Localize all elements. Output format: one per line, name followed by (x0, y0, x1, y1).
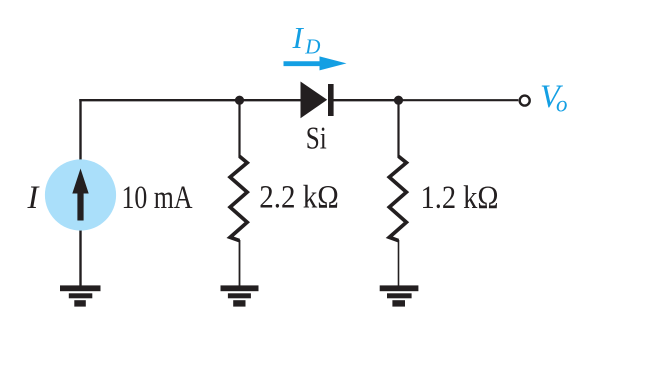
svg-text:1.2 kΩ: 1.2 kΩ (421, 180, 499, 216)
svg-text:o: o (556, 92, 568, 117)
ground: resistor R2 (380, 285, 419, 306)
diode D1 anode triangle (301, 82, 328, 119)
wire: node A down to resistor R1 (238, 100, 240, 157)
current source I body (45, 159, 116, 230)
wire: resistor R2 bottom to ground (398, 240, 400, 286)
svg-text:I: I (292, 20, 305, 55)
diode D1 cathode bar (328, 84, 334, 116)
node A junction dot (235, 96, 244, 105)
resistor R1 2.2k zigzag (230, 156, 247, 240)
current source arrow (72, 169, 88, 221)
wire: top rail from left corner to node A (79, 99, 239, 101)
svg-text:2.2 kΩ: 2.2 kΩ (259, 180, 339, 216)
wire: left vertical from top rail to current source (79, 99, 81, 160)
ground: current source (60, 285, 101, 306)
node B junction dot (394, 96, 403, 105)
wire: current source bottom to ground (79, 230, 81, 286)
svg-text:10 mA: 10 mA (122, 180, 193, 216)
svg-text:Si: Si (306, 119, 327, 155)
wire: node B down to resistor R2 (397, 100, 399, 157)
resistor R2 1.2k zigzag (389, 156, 406, 240)
ground: resistor R1 (221, 285, 259, 306)
output terminal circle (520, 96, 530, 106)
wire: diode cathode to node B (332, 99, 399, 101)
svg-text:I: I (27, 180, 41, 216)
wire: node A to diode anode (240, 99, 303, 101)
wire: node B to output terminal (399, 99, 519, 101)
current direction arrow ID (284, 56, 347, 70)
svg-text:D: D (304, 34, 320, 58)
wire: resistor R1 bottom to ground (239, 240, 241, 286)
